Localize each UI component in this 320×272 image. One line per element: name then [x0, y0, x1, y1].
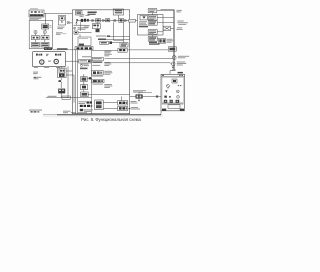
bus header text	[88, 12, 97, 16]
box c5	[92, 57, 103, 60]
label group left	[56, 32, 63, 35]
bus node a	[91, 19, 93, 21]
labels r2	[104, 62, 111, 66]
wire mid low	[71, 111, 76, 113]
labels r3	[104, 71, 112, 75]
P2 display	[172, 79, 177, 83]
frame B	[72, 10, 129, 114]
wire m1	[110, 36, 130, 38]
bus node b	[102, 19, 104, 21]
wire A1 to frame B	[44, 12, 72, 14]
divider x91.5	[91, 50, 93, 114]
transformer T2	[136, 92, 143, 98]
box m3	[100, 41, 109, 44]
wire D1-D2	[60, 78, 62, 88]
bus wire	[78, 20, 138, 22]
bus node d	[124, 19, 126, 21]
rail b	[174, 10, 176, 71]
wire bus down right	[123, 22, 125, 42]
wire Rc-Rd	[152, 35, 154, 37]
label rows c	[74, 25, 86, 26]
P2 slot	[162, 103, 184, 108]
faint label above A1	[30, 8, 38, 9]
label top of V1	[0, 0, 1, 1]
block B3 end	[96, 29, 100, 32]
block T	[148, 9, 157, 13]
label under Rd	[149, 42, 160, 45]
block E3	[81, 92, 89, 97]
P2 marks a	[178, 84, 182, 87]
P1 knob right	[54, 59, 58, 63]
P2 mark b	[165, 90, 167, 92]
block A1 (radio unit)	[29, 10, 44, 17]
wire Rd right	[157, 38, 158, 40]
block C3R	[41, 42, 49, 47]
wire Rb right	[157, 22, 174, 24]
wire m2	[106, 39, 130, 41]
bus unit a	[81, 19, 89, 22]
wire T2 stem	[138, 99, 140, 102]
row c1	[82, 56, 91, 57]
mark under D1	[59, 80, 62, 82]
label under P1 a	[33, 72, 38, 75]
wire E2-E3	[83, 90, 85, 92]
row c7	[92, 65, 100, 66]
wire D2 down	[60, 93, 62, 98]
label g4	[84, 109, 93, 112]
label under A1	[29, 18, 41, 21]
P1 feet	[34, 67, 60, 68]
box on wire	[62, 96, 70, 99]
box c8	[92, 70, 103, 75]
row c6	[92, 62, 102, 63]
frame R	[138, 15, 164, 36]
frame C	[29, 20, 52, 48]
wire C2L down	[35, 40, 37, 43]
P2 switch	[167, 85, 170, 90]
labels far right 1	[176, 10, 182, 13]
wire node down	[97, 22, 99, 29]
block F1	[118, 101, 128, 105]
row g2	[80, 105, 92, 107]
wire K right	[127, 49, 168, 51]
row R dark	[139, 26, 148, 28]
bottom wire	[57, 114, 161, 116]
block A1 top marks	[31, 11, 43, 13]
labels far right 2	[177, 21, 188, 25]
scan band	[43, 114, 163, 117]
label mid low	[63, 111, 71, 114]
block D1	[58, 68, 67, 78]
block C2R	[41, 36, 49, 40]
labels M1	[178, 56, 189, 59]
block Ra	[148, 15, 157, 20]
meter right	[43, 30, 46, 33]
wire E1-E2	[83, 82, 85, 85]
wire F1 top	[121, 97, 123, 101]
P2 top strip	[161, 75, 185, 77]
meter M1	[172, 56, 176, 60]
wire G-F2	[103, 107, 117, 109]
node small	[74, 27, 76, 29]
unit V1	[58, 16, 65, 25]
block D2	[58, 89, 65, 94]
P2 bottom row	[164, 100, 179, 103]
dash to C	[63, 33, 67, 35]
wire E1 up	[83, 74, 85, 77]
label g5	[78, 112, 87, 113]
wire C right col	[44, 34, 46, 36]
P1 top controls	[36, 54, 61, 57]
block Rb	[148, 21, 157, 26]
P2 top tab	[178, 72, 183, 74]
label B2 left	[84, 25, 90, 28]
panel P2	[161, 74, 185, 111]
wire D1 right b	[66, 74, 74, 76]
row g1	[79, 101, 92, 104]
wire across y40	[114, 39, 124, 41]
wire T right	[157, 9, 174, 11]
wire X1 right	[171, 27, 174, 29]
meter left	[34, 30, 37, 33]
label under P1 b	[33, 77, 41, 80]
P1 knob left	[40, 60, 44, 64]
block C2L	[31, 36, 39, 40]
mark triangle	[75, 21, 77, 24]
block L	[120, 43, 128, 47]
label rows d	[78, 27, 89, 30]
dashes y70	[172, 69, 176, 72]
labels far right 3	[176, 27, 183, 30]
mux X1	[163, 26, 170, 30]
block C1 rectifier	[42, 24, 49, 29]
wire G-F1	[103, 102, 117, 104]
wire E1 right	[87, 77, 92, 79]
wire T2 left	[130, 96, 136, 98]
bus unit b2	[106, 19, 110, 22]
wire Ra right	[157, 17, 174, 19]
tick M2	[170, 63, 171, 65]
block K	[118, 48, 127, 52]
wire E3 right	[88, 93, 130, 95]
row c3	[80, 64, 89, 67]
wire label T2	[139, 91, 152, 93]
dash under M2	[172, 67, 174, 69]
labels F2	[129, 107, 140, 110]
block R-comp	[140, 16, 147, 20]
block G	[95, 100, 104, 110]
block A1 label strip	[30, 14, 44, 16]
block Rd	[148, 37, 157, 42]
wire m3	[112, 42, 120, 44]
wire P2 down	[160, 111, 162, 115]
box c10	[92, 79, 104, 82]
wire C1 down	[44, 29, 46, 30]
labels F1	[131, 101, 138, 104]
wire C left col	[35, 34, 37, 36]
block Rc	[148, 30, 157, 35]
wire T down	[152, 13, 154, 15]
wire top right	[161, 9, 174, 11]
meter M2	[171, 62, 175, 66]
wire H down	[79, 34, 81, 37]
bottom wire faint	[43, 114, 57, 116]
block B1	[76, 11, 83, 16]
bus unit d	[129, 19, 136, 22]
bus rail a	[75, 50, 77, 114]
block E1	[81, 77, 88, 82]
wire x68	[67, 66, 69, 97]
header J	[75, 47, 93, 50]
row m1	[96, 35, 110, 37]
wire P1 to D1	[60, 66, 62, 68]
mark m3	[109, 41, 112, 44]
labels X2	[167, 39, 174, 43]
bus unit c	[119, 18, 124, 22]
row c9	[92, 76, 103, 77]
wire T1 down	[117, 15, 119, 18]
labels r4	[104, 84, 112, 88]
wire H right	[78, 32, 92, 34]
P2 feet	[162, 109, 184, 111]
wire y62	[105, 62, 171, 64]
wire S1 to B	[70, 22, 73, 24]
labels r1	[104, 51, 112, 57]
label right of power block	[57, 48, 68, 50]
P2 inner border	[162, 77, 184, 102]
label under V1	[57, 27, 64, 30]
bus label rows a	[80, 14, 90, 17]
wire D1 right a	[66, 70, 72, 72]
label T2	[133, 90, 146, 92]
svg-text:Рис. 8. Функциональная схема: Рис. 8. Функциональная схема	[81, 117, 141, 122]
box c2	[79, 60, 91, 63]
rail a	[172, 10, 174, 71]
wire bus sq down	[80, 22, 82, 31]
block F2	[118, 106, 128, 110]
power block	[44, 47, 52, 50]
P2 knob c	[176, 90, 179, 93]
block B2 under bus	[92, 24, 100, 29]
labels M2	[177, 62, 187, 66]
wire C2R down	[44, 40, 46, 43]
mark g3	[80, 109, 83, 111]
divider y49.8	[53, 49, 92, 51]
long wire y97.7	[46, 97, 92, 99]
panel P1	[33, 52, 66, 67]
connector E1	[89, 77, 91, 79]
P1 center marks	[48, 61, 51, 62]
wire x74 down	[73, 75, 75, 103]
row c11	[92, 84, 103, 85]
block E2	[81, 85, 88, 90]
bus unit b	[96, 19, 101, 22]
block X2	[159, 39, 166, 44]
blob on wire	[156, 96, 158, 98]
P2 marks d	[164, 95, 179, 98]
wire bus down left	[113, 22, 115, 40]
row c4	[80, 68, 88, 70]
wire into P2	[170, 71, 175, 75]
bus node c	[114, 19, 117, 22]
wire into c2	[65, 60, 79, 62]
wire y58	[105, 57, 173, 59]
row m2	[98, 39, 106, 41]
label B left 1	[76, 19, 78, 21]
block C3L	[31, 42, 39, 47]
wire T2 right	[143, 96, 161, 98]
label bottom left	[29, 110, 42, 113]
labels R left	[139, 21, 147, 25]
wire K chain	[92, 49, 118, 51]
block H	[74, 31, 78, 34]
C1 side ticks	[49, 25, 51, 27]
sensor S1	[67, 21, 70, 24]
wire down into C	[44, 13, 46, 24]
block I	[78, 37, 91, 46]
label on wire	[48, 96, 57, 97]
block K2	[168, 47, 176, 51]
block T1 top	[113, 9, 123, 15]
bus rail b	[77, 50, 79, 114]
wire Rc right	[157, 31, 163, 33]
